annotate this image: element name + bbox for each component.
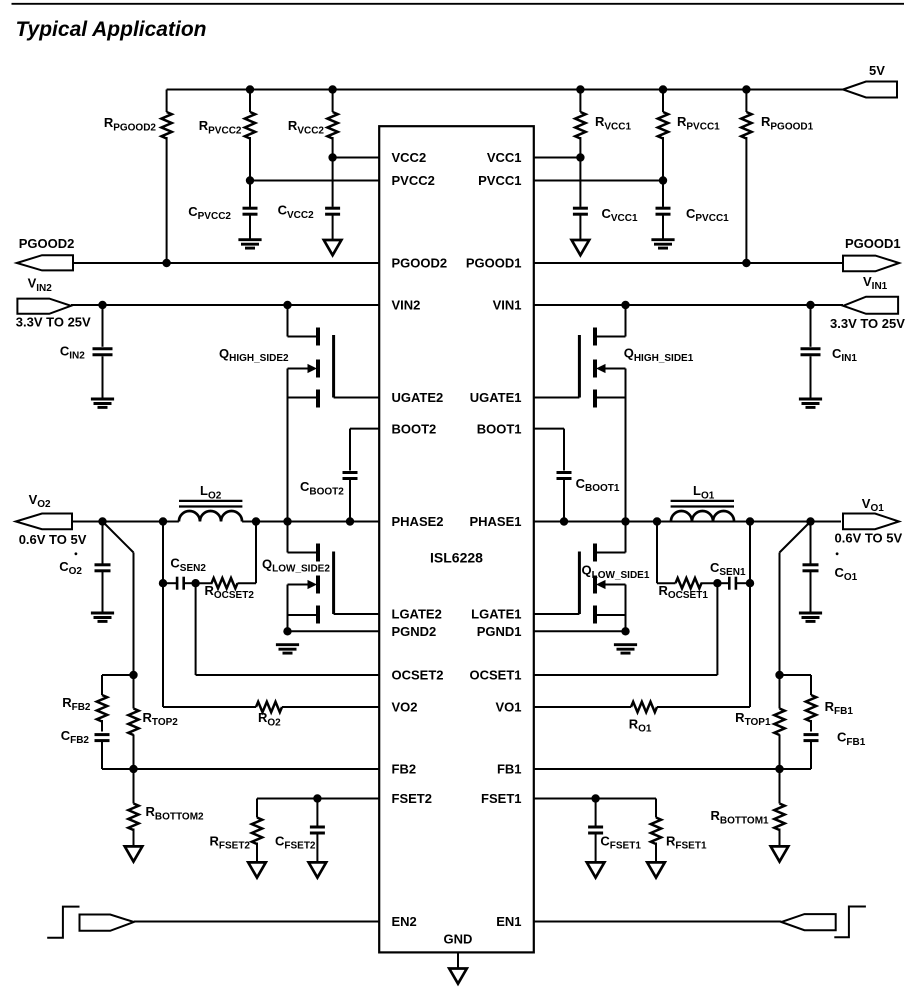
svg-text:PGND1: PGND1 [477, 624, 522, 639]
svg-text:3.3V TO 25V: 3.3V TO 25V [16, 315, 91, 330]
svg-text:PGOOD2: PGOOD2 [392, 256, 448, 271]
svg-text:PHASE1: PHASE1 [469, 514, 521, 529]
svg-text:3.3V TO 25V: 3.3V TO 25V [830, 316, 905, 331]
svg-text:PGOOD1: PGOOD1 [466, 256, 522, 271]
svg-text:OCSET1: OCSET1 [469, 668, 521, 683]
svg-text:ISL6228: ISL6228 [430, 550, 483, 566]
svg-text:UGATE1: UGATE1 [470, 390, 522, 405]
svg-text:VO2: VO2 [392, 700, 418, 715]
svg-text:PVCC1: PVCC1 [478, 173, 521, 188]
svg-text:0.6V TO 5V: 0.6V TO 5V [835, 531, 903, 546]
svg-text:FSET2: FSET2 [392, 791, 432, 806]
svg-text:BOOT1: BOOT1 [477, 421, 522, 436]
svg-text:Typical Application: Typical Application [16, 18, 207, 41]
svg-text:PGOOD2: PGOOD2 [19, 236, 75, 251]
svg-text:FSET1: FSET1 [481, 791, 521, 806]
svg-text:BOOT2: BOOT2 [392, 421, 437, 436]
svg-text:UGATE2: UGATE2 [392, 390, 444, 405]
svg-text:GND: GND [444, 932, 473, 947]
svg-text:OCSET2: OCSET2 [392, 668, 444, 683]
svg-text:VCC2: VCC2 [392, 150, 427, 165]
svg-text:LGATE2: LGATE2 [392, 607, 442, 622]
svg-text:LGATE1: LGATE1 [471, 607, 521, 622]
svg-text:EN1: EN1 [496, 914, 521, 929]
svg-text:VIN2: VIN2 [392, 298, 421, 313]
svg-text:VO1: VO1 [495, 700, 521, 715]
svg-text:EN2: EN2 [392, 914, 417, 929]
svg-text:PGND2: PGND2 [392, 624, 437, 639]
svg-text:PGOOD1: PGOOD1 [845, 236, 901, 251]
svg-text:VCC1: VCC1 [487, 150, 522, 165]
svg-text:PVCC2: PVCC2 [392, 173, 435, 188]
svg-text:PHASE2: PHASE2 [392, 514, 444, 529]
svg-text:0.6V TO 5V: 0.6V TO 5V [19, 532, 87, 547]
svg-text:VIN1: VIN1 [493, 298, 522, 313]
svg-text:FB1: FB1 [497, 762, 522, 777]
svg-text:5V: 5V [869, 63, 885, 78]
svg-text:FB2: FB2 [392, 762, 417, 777]
